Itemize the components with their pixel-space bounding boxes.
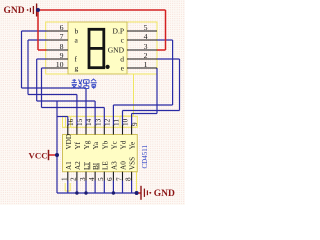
display pin 1 (e) (121, 60, 157, 73)
power port VCC (29, 150, 49, 161)
svg-text:7: 7 (60, 32, 64, 41)
svg-text:g: g (75, 64, 79, 73)
svg-text:d: d (120, 55, 124, 64)
svg-text:A1: A1 (65, 161, 73, 170)
svg-text:10: 10 (56, 60, 64, 69)
svg-text:Yc: Yc (110, 141, 118, 149)
wire segment c net: right vertical (172, 40, 174, 105)
wire segment d net: drop to U1 pin 10 (122, 111, 124, 126)
wire segment f net: drop to U1 pin 13 (94, 101, 96, 126)
svg-text:8: 8 (60, 42, 64, 51)
svg-text:3: 3 (79, 177, 87, 181)
junction at VCC tap (55, 153, 59, 157)
display pin 2 (d) (120, 51, 157, 64)
wire segment VDD net: riser past VCC tap (56, 101, 58, 193)
wire segment U1 pin 3 drop to bus (85, 181, 87, 194)
CD4511 body (63, 135, 138, 172)
ground symbol GND bottom right (141, 186, 175, 200)
junction on bus at pin 2 (75, 191, 78, 194)
svg-text:7: 7 (115, 177, 123, 181)
wire segment b net: horizontal feeder (22, 87, 87, 89)
svg-text:A0: A0 (120, 161, 128, 170)
svg-text:16: 16 (67, 118, 75, 126)
selection highlight around U1 pin 8 wire (bottom right) (136, 172, 138, 192)
U1 pin 5 (LE) (97, 161, 109, 181)
wire segment f net: display pin 9 left (37, 58, 47, 60)
wire segment e net: vertical from display pin 1 (156, 68, 158, 114)
wire segment b net: drop to U1 pin 14 (85, 88, 87, 126)
wire segment b net: display pin 6 left (22, 30, 47, 32)
U1 pin 9 (Ye) (129, 122, 139, 150)
U1 pin 2 (A2) (70, 161, 82, 181)
svg-text:4: 4 (144, 32, 148, 41)
U1 pin 3 (LT) (79, 161, 91, 181)
wire segment d net: display pin 2 right (157, 58, 180, 60)
svg-text:Yg: Yg (83, 140, 91, 149)
svg-text:3: 3 (144, 42, 148, 51)
junction on bus at pin 3 (84, 191, 87, 194)
wire segment b net: left vertical (21, 31, 23, 88)
U1 pin 14 (Yg) (83, 118, 93, 149)
svg-text:2: 2 (70, 177, 78, 181)
wire GND net: left vertical (37, 10, 39, 50)
display pin 8 (common) (47, 42, 69, 51)
svg-text:LE: LE (101, 161, 109, 170)
wire segment VDD net: top horizontal (57, 116, 68, 118)
junction on bus at pin 6 (112, 191, 115, 194)
wire segment U1 pin 1 drop to bus (67, 181, 69, 194)
svg-text:10: 10 (122, 118, 130, 126)
selection highlight around wire to U1 pin 10 (120, 74, 134, 127)
decimal point dot (106, 65, 110, 69)
ground symbol GND top left (4, 4, 37, 17)
svg-text:9: 9 (60, 51, 64, 60)
wire segment VDD net: drop to U1 pin 16 (67, 117, 69, 126)
selection highlight around U1 pin 1 wire (bottom) (65, 183, 70, 191)
svg-text:2: 2 (144, 51, 148, 60)
U1 pin 4 (BI) (88, 162, 100, 181)
wire segment d net: right vertical (179, 59, 181, 111)
svg-text:11: 11 (113, 119, 121, 126)
svg-text:13: 13 (94, 118, 102, 126)
U1 pin 13 (Ya) (92, 118, 102, 149)
wire VCC stem (49, 154, 58, 156)
svg-text:5: 5 (97, 177, 105, 181)
svg-text:4: 4 (88, 177, 96, 181)
wire GND net: right vertical (165, 10, 167, 50)
display pin 4 (c) (121, 32, 157, 45)
wire segment U1 pin 2 drop to bus (76, 181, 78, 194)
svg-text:6: 6 (106, 177, 114, 181)
display pin 6 (b) (47, 23, 79, 36)
svg-text:1: 1 (61, 177, 69, 181)
svg-text:9: 9 (131, 122, 139, 126)
svg-text:15: 15 (76, 118, 84, 126)
wire segment a net: display pin 7 left (28, 39, 47, 41)
svg-text:D.P: D.P (113, 27, 124, 36)
wire segment bottom bus (57, 192, 137, 194)
display pin 7 (a) (47, 32, 79, 45)
display pin 5 (D.P) (113, 23, 157, 36)
U1 pin 11 (Yc) (110, 119, 120, 150)
svg-text:GND: GND (108, 46, 125, 55)
svg-text:8: 8 (124, 177, 132, 181)
svg-text:Yd: Yd (120, 140, 128, 149)
wire GND stem bottom right (137, 192, 141, 194)
wire segment U1 pin 4 drop to bus (94, 181, 96, 194)
wire segment e net: drop to U1 pin 9 (131, 114, 133, 126)
U1 pin 15 (Yf) (74, 118, 84, 149)
U1 pin 10 (Yd) (120, 118, 130, 149)
label 数码管 (blue) (72, 79, 97, 89)
wire segment c net: display pin 4 right (157, 39, 173, 41)
wire segment U1 pin 7 drop to bus (122, 181, 124, 194)
U1 pin 16 (VDD) (65, 118, 75, 149)
selection highlight box around display DS1 (46, 22, 157, 74)
svg-text:GND: GND (154, 189, 175, 199)
wire segment U1 pin 5 drop to bus (103, 181, 105, 194)
svg-text:VSS: VSS (129, 157, 137, 170)
wire segment g net: drop to U1 pin 12 (103, 108, 105, 126)
U1 pin 8 (VSS) (124, 157, 136, 181)
svg-text:14: 14 (85, 118, 93, 126)
svg-text:Ye: Ye (129, 142, 137, 150)
wire GND net: into display pin 8 (38, 49, 47, 51)
junction at top left GND corner (36, 8, 40, 12)
wire segment a net: horizontal feeder (28, 94, 77, 96)
wire segment f net: horizontal feeder (37, 100, 95, 102)
svg-text:Yb: Yb (101, 140, 109, 149)
display pin 3 (GND) (108, 42, 157, 55)
wire segment d net: horizontal feeder (123, 110, 180, 112)
svg-text:Yf: Yf (74, 141, 82, 149)
wire segment f net: left vertical (36, 59, 38, 101)
wire segment U1 pin 8 drop to bus (131, 181, 133, 194)
svg-text:6: 6 (60, 23, 64, 32)
label CD4511 (blue, rotated) (141, 145, 149, 169)
wire segment g net: left vertical (41, 68, 43, 108)
svg-text:Ya: Ya (92, 141, 100, 149)
svg-text:GND: GND (4, 6, 25, 16)
wire segment e net: horizontal feeder (132, 113, 157, 115)
wire segment c net: horizontal feeder (113, 104, 172, 106)
U1 pin 12 (Yb) (101, 118, 111, 149)
display pin 9 (f) (47, 51, 78, 64)
svg-text:VDD: VDD (65, 134, 73, 150)
svg-text:12: 12 (104, 118, 112, 126)
wire GND net: into display pin 3 (157, 49, 166, 51)
wire segment g net: display pin 10 left (42, 67, 47, 69)
selection highlight band around U1 top pin numbers (63, 116, 138, 127)
wire segment g net: horizontal feeder (42, 107, 105, 109)
svg-text:5: 5 (144, 23, 148, 32)
wire GND net: top rail (38, 9, 166, 11)
wire segment c net: drop to U1 pin 11 (112, 105, 114, 126)
U1 pin 1 (A1) (61, 161, 73, 181)
junction at bottom bus GND corner (135, 191, 139, 195)
svg-text:1: 1 (144, 60, 148, 69)
display pin 10 (g) (47, 60, 79, 73)
selection highlight around U1 pin 16 wire (66, 117, 71, 127)
svg-text:VCC: VCC (29, 151, 48, 161)
svg-text:CD4511: CD4511 (141, 145, 149, 169)
wire segment U1 pin 6 drop to bus (112, 181, 114, 194)
svg-text:A2: A2 (74, 161, 82, 170)
U1 pin 6 (A3) (106, 161, 118, 181)
wire segment a net: left vertical (27, 40, 29, 95)
wire segment a net: drop to U1 pin 15 (76, 95, 78, 126)
7-segment digit glyph (89, 29, 104, 67)
svg-text:A3: A3 (110, 161, 118, 170)
7-segment display body (68, 22, 127, 74)
U1 pin 7 (A0) (115, 161, 127, 181)
svg-text:b: b (75, 27, 79, 36)
